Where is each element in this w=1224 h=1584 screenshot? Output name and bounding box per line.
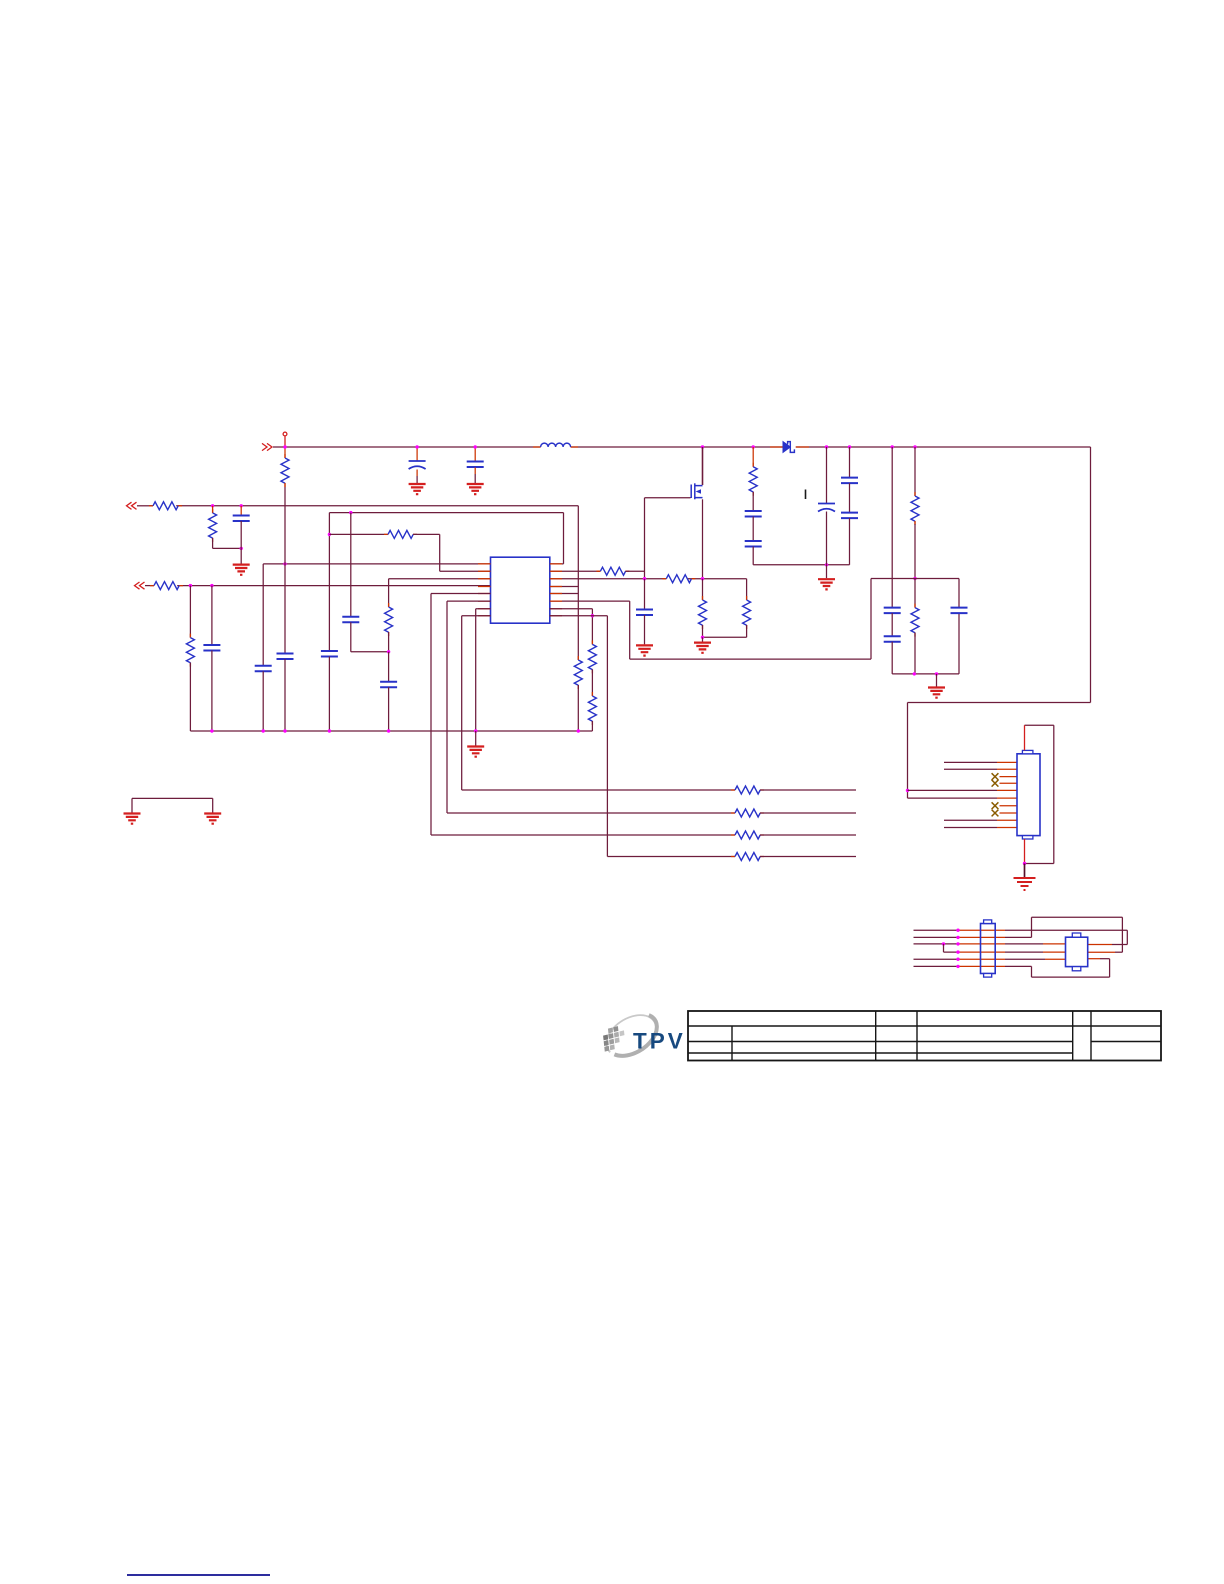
connector CN2 body: [981, 924, 996, 974]
wire pin3L y=578.7: [389, 578, 491, 580]
wire pin7R chain: [550, 609, 593, 645]
wire CN1 shield loop: [1025, 725, 1054, 863]
junction CN2 dots: [956, 929, 959, 932]
capacitor C11: [745, 511, 762, 517]
wire pin5R stub net: [550, 593, 579, 595]
wire pin8L to line1: [462, 616, 491, 790]
wire line1 y=790: [462, 789, 735, 791]
wire pin8R to line4: [550, 616, 608, 857]
filter X1 body: [1066, 937, 1088, 966]
wire branch x=350.8: [350, 513, 352, 617]
capacitor C8: [342, 617, 359, 623]
wire filter box outline: [550, 579, 959, 674]
wire CN2 line5: [914, 958, 959, 960]
ground G1: [409, 484, 426, 494]
label mark: [805, 490, 807, 500]
title block table: [688, 1011, 1161, 1061]
logo TPV swoosh ellipse: [599, 1006, 664, 1065]
wire input2 y=506: [137, 505, 153, 507]
capacitor C4: [211, 586, 213, 645]
filter X1 right pins: [1088, 944, 1112, 946]
wire pin1L y=563.9: [263, 563, 490, 565]
wire pin6L to line2: [447, 601, 491, 813]
junction filter bottom dots: [913, 672, 916, 675]
resistor R5: [189, 586, 191, 638]
capacitor C6: [277, 654, 294, 660]
wire right edge drop: [908, 447, 1091, 798]
wire MOSFET source to node: [702, 499, 704, 578]
resistor R14: [591, 669, 593, 696]
wire CN1 top pin: [1024, 725, 1026, 750]
capacitor C12: [745, 541, 762, 547]
wire pin7L to ground rail: [476, 609, 491, 731]
resistor R16 branch x=915: [914, 447, 916, 496]
connector input 2 chevrons: [127, 502, 137, 509]
ground G6: [636, 645, 653, 655]
wire pin2R net: [550, 570, 601, 572]
wire ground rail y=731: [190, 730, 592, 732]
wire to pin2L: [440, 534, 491, 571]
IC U1: [491, 557, 550, 623]
ground G8: [475, 731, 477, 746]
svg-text:TPV: TPV: [633, 1029, 686, 1054]
capacitor C1: [416, 447, 418, 461]
no-connect X pin4: [992, 780, 999, 787]
capacitor C3: [240, 506, 242, 516]
wire branch x=329.4: [328, 513, 330, 651]
wire MOSFET drain: [702, 447, 704, 485]
wire CN2 line2: [914, 936, 959, 938]
junction rail dots: [210, 729, 213, 732]
junction dots on top rail: [283, 445, 286, 448]
wire input3 y=585.6: [145, 585, 154, 587]
logo checker squares: [603, 1025, 626, 1052]
capacitor C14 C15 branch x=849.5: [849, 447, 851, 478]
resistor R8: [597, 570, 600, 572]
ground G5: [694, 643, 711, 653]
connector input 1 chevrons >>: [262, 443, 272, 450]
ground G10: [204, 814, 221, 824]
wire pin4R stub net: [550, 586, 579, 588]
wire R3 to C3: [213, 547, 242, 549]
diode D1 schottky: [770, 446, 809, 448]
wire CN2 line4 jog: [944, 944, 959, 952]
wire termination drop x=578.3: [577, 506, 579, 660]
wire CN2 line6: [914, 965, 959, 967]
IC U1 pin stubs: [478, 564, 562, 616]
no-connect X pin7: [992, 802, 999, 809]
no-connect X pin8: [992, 810, 999, 817]
resistor R11: [746, 579, 748, 600]
wire R10 R11 bottom: [703, 636, 747, 638]
ground G7: [928, 688, 945, 698]
junction pin3R dots: [643, 577, 646, 580]
resistor R18: [731, 809, 764, 817]
connector input 3 chevrons: [135, 582, 145, 589]
resistor R12: [574, 656, 582, 689]
resistor R15 branch x=753.2: [752, 447, 754, 467]
wire gate lead: [645, 498, 691, 579]
wire CN2 line1: [914, 929, 959, 931]
transistor Q1 MOSFET: [691, 483, 702, 499]
resistor R4: [150, 582, 183, 590]
wire pin5L to line3: [431, 594, 491, 836]
resistor R19: [731, 831, 764, 839]
wire line3 y=835: [431, 834, 735, 836]
resistor R16b: [911, 604, 919, 637]
capacitor C2: [474, 447, 476, 462]
wire CN2 line3: [914, 943, 959, 945]
capacitor C16 C17 branch x=892.2: [891, 447, 893, 608]
capacitor C18: [951, 608, 968, 614]
ground G4: [818, 579, 835, 589]
capacitor C13 electrolytic x=826.5: [826, 447, 828, 504]
wire ground link: [132, 798, 213, 812]
no-connect X pin3: [992, 773, 999, 780]
footer underline: [127, 1574, 270, 1576]
ground G2: [467, 484, 484, 494]
capacitor C10 gate: [644, 579, 646, 610]
wire C8 to R6 node: [351, 651, 389, 653]
resistor R1: [284, 447, 286, 458]
ground G9: [124, 814, 141, 824]
capacitor C7: [321, 651, 338, 657]
ground G3: [233, 565, 250, 575]
resistor R3: [212, 506, 214, 513]
inductor L1: [533, 446, 578, 448]
node VIN terminal circle: [283, 432, 287, 436]
wire snubber bottom y=564.8: [753, 564, 849, 566]
wire line2 y=813: [447, 812, 735, 814]
wire CN1 pin1 pin2 stubs: [944, 762, 997, 769]
wire branch x=285: [284, 487, 286, 654]
resistor R6: [388, 579, 390, 607]
resistor R17: [731, 786, 764, 794]
wire branch x=263.2: [262, 564, 264, 666]
resistor R2: [149, 502, 182, 510]
connector CN1 body: [1017, 754, 1040, 836]
wire pin3R net y=578.7: [550, 578, 667, 580]
wire net y=534.4: [329, 533, 385, 535]
wire CN1 bottom pin: [1024, 839, 1026, 864]
wire net y=512.6: [329, 513, 563, 564]
capacitor C5: [255, 666, 272, 672]
capacitor C9: [388, 652, 390, 682]
wire CN1 pin5 pin6 feed: [906, 789, 909, 792]
resistor R20: [731, 853, 764, 861]
resistor R9: [662, 575, 695, 583]
ground G11: [1014, 878, 1036, 890]
wire line4 y=856.5: [607, 856, 735, 858]
resistor R13: [588, 640, 596, 673]
resistor R10: [702, 579, 704, 600]
wire CN1 pin9 pin10 stubs: [944, 820, 997, 827]
wire top rail y=447: [273, 446, 541, 448]
resistor R7: [385, 533, 388, 535]
